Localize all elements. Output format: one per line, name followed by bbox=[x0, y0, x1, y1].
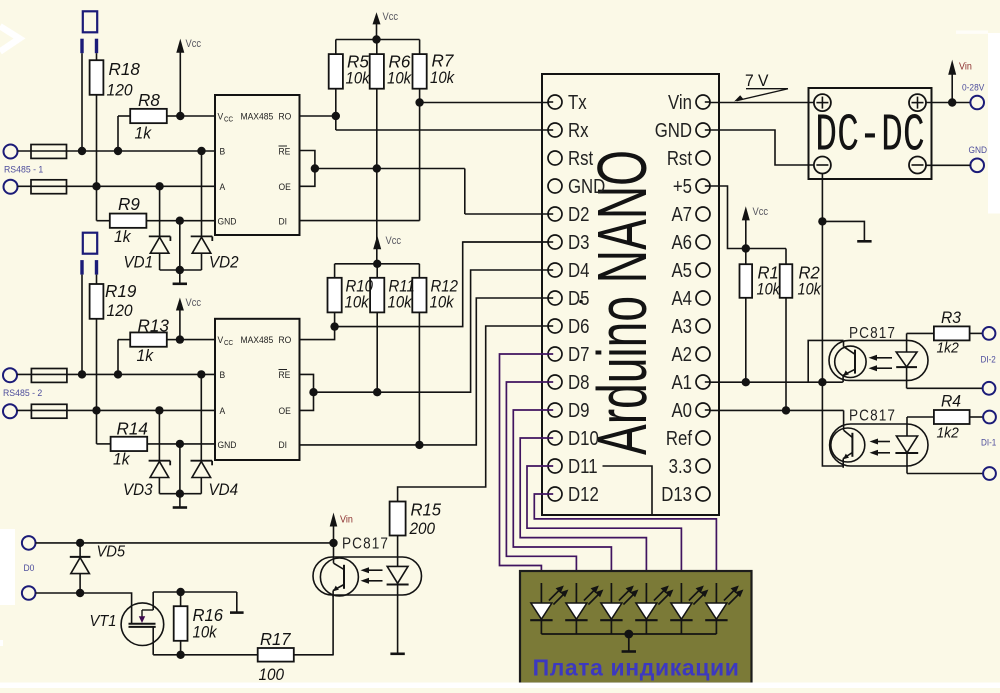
wire to Arduino D2 bbox=[465, 213, 548, 215]
LED HL5 on board bbox=[670, 583, 708, 634]
svg-text:GND: GND bbox=[218, 216, 237, 227]
svg-text:RS485 - 1: RS485 - 1 bbox=[4, 164, 43, 174]
svg-text:VD3: VD3 bbox=[123, 481, 153, 499]
node A2-line junctions bbox=[92, 406, 100, 414]
wire LED cathode to DI-2 return terminal bbox=[907, 387, 983, 389]
node bracket mid bbox=[311, 164, 319, 172]
optocoupler U4 PC817 #1 bbox=[829, 325, 928, 382]
diode VD3 bbox=[123, 410, 170, 499]
svg-text:D4: D4 bbox=[568, 259, 589, 282]
wire D0 plus line bbox=[36, 542, 334, 544]
svg-text:VD2: VD2 bbox=[209, 254, 239, 272]
wire Vcc to MAX485-1 Vcc pin bbox=[180, 115, 215, 117]
svg-text:Vcc: Vcc bbox=[383, 11, 399, 23]
svg-text:Ref: Ref bbox=[666, 427, 693, 450]
svg-text:10k: 10k bbox=[346, 70, 371, 88]
fuse F2 bbox=[31, 180, 67, 194]
resistor R11 bbox=[370, 264, 384, 392]
wire GND net vertical from DC-DC bbox=[821, 174, 823, 383]
wire LED cathode to DI-1 return terminal bbox=[907, 473, 983, 475]
wire D11 to LED5 bbox=[527, 466, 681, 585]
svg-text:A: A bbox=[220, 182, 226, 193]
LED HL4 on board bbox=[635, 583, 673, 634]
svg-text:A1: A1 bbox=[671, 371, 692, 394]
ground symbol 1 bbox=[173, 282, 187, 285]
pin A3 (Arduino right) bbox=[671, 315, 710, 338]
wire D3 pin stub bbox=[463, 241, 548, 243]
svg-text:Плата индикации: Плата индикации bbox=[533, 655, 740, 681]
optocoupler U5 PC817 #2 bbox=[830, 408, 928, 468]
svg-text:120: 120 bbox=[107, 81, 133, 100]
svg-text:VD1: VD1 bbox=[124, 254, 154, 272]
wire GND2 row to diode bus bbox=[179, 444, 181, 494]
svg-text:V: V bbox=[218, 111, 224, 122]
wire Tx line to Arduino bbox=[420, 102, 548, 104]
svg-text:Rx: Rx bbox=[568, 119, 589, 142]
node R11 pull-up junction bbox=[373, 388, 381, 396]
svg-text:100: 100 bbox=[259, 665, 285, 684]
terminal D0 minus bbox=[22, 586, 36, 600]
wire R19 bottom through A2 line to R14 bbox=[96, 319, 98, 444]
pin GND (Arduino left) bbox=[548, 175, 605, 198]
fuse F4 bbox=[31, 404, 67, 418]
wire RO2 to D3 riser bbox=[335, 242, 548, 327]
resistor R2 bbox=[780, 249, 822, 411]
ground symbol 2 bbox=[173, 506, 187, 509]
pin D5 (Arduino left) bbox=[548, 287, 589, 310]
pin D9 (Arduino left) bbox=[548, 399, 589, 422]
svg-text:Rst: Rst bbox=[667, 147, 692, 170]
svg-text:120: 120 bbox=[107, 301, 133, 320]
ground symbol 3 bbox=[857, 240, 871, 243]
fuse F1 bbox=[31, 145, 67, 159]
resistor R1 bbox=[740, 249, 782, 383]
node Vin junction bbox=[948, 98, 956, 106]
power Vcc arrow (R1 R2) bbox=[742, 206, 768, 248]
svg-text:Vcc: Vcc bbox=[753, 206, 769, 218]
pin 3.3 (Arduino right) bbox=[669, 455, 710, 478]
svg-text:D6: D6 bbox=[568, 315, 589, 338]
svg-text:R14: R14 bbox=[117, 418, 149, 439]
terminal 0-28V bbox=[970, 96, 984, 110]
svg-text:GND: GND bbox=[568, 175, 605, 198]
node Vcc bus R1 junction bbox=[742, 244, 750, 252]
terminal DI-1 out bbox=[983, 411, 996, 424]
resistor R6 with long vertical line bbox=[370, 40, 412, 264]
white scan artifact right strip bbox=[988, 33, 1000, 214]
pin Vin (Arduino right) bbox=[668, 91, 710, 114]
LED of U5 bbox=[895, 417, 918, 474]
resistor R15 bbox=[390, 500, 442, 538]
svg-text:B: B bbox=[220, 370, 226, 381]
LED HL1 on board bbox=[530, 583, 568, 634]
svg-text:3.3: 3.3 bbox=[669, 455, 692, 478]
label 7 V with leader arrow bbox=[734, 72, 788, 102]
svg-text:Vcc: Vcc bbox=[186, 38, 202, 50]
svg-text:10k: 10k bbox=[387, 70, 412, 88]
wire collector to opto3 bbox=[333, 543, 335, 557]
svg-text:R8: R8 bbox=[138, 90, 160, 111]
wire jumper left leg to B2 line bbox=[81, 275, 83, 375]
node A1 GND junction bbox=[818, 378, 826, 386]
wire D7 to LED1 bbox=[500, 354, 554, 585]
op-amp U2 MAX485 #2 bbox=[215, 319, 300, 460]
svg-text:MAX485: MAX485 bbox=[241, 111, 274, 122]
LED HL3 on board bbox=[600, 583, 638, 634]
svg-text:1k: 1k bbox=[137, 346, 154, 365]
svg-text:Tx: Tx bbox=[568, 91, 587, 114]
white scan artifact bottom strip bbox=[0, 683, 1000, 689]
node B2-line junctions bbox=[78, 370, 86, 378]
svg-text:D0: D0 bbox=[24, 563, 35, 574]
wire DC-DC plus output to 0-28V terminal bbox=[926, 102, 970, 104]
diode VD1 bbox=[124, 186, 171, 271]
pin Ref (Arduino right) bbox=[666, 427, 710, 450]
terminal DI-2 bbox=[983, 327, 996, 340]
node VD5 bottom bbox=[76, 589, 84, 597]
resistor R17 bbox=[258, 630, 334, 685]
wire GND row to diode bus bbox=[179, 221, 181, 270]
svg-text:V: V bbox=[218, 335, 224, 346]
wire DI1 row bbox=[300, 220, 420, 222]
svg-text:GND: GND bbox=[969, 145, 988, 156]
fuse F3 bbox=[31, 369, 67, 383]
node A0/R2 junction bbox=[782, 406, 790, 414]
svg-text:DI: DI bbox=[279, 216, 288, 227]
terminal RS485-1 pin B bbox=[4, 145, 18, 159]
wire RE2/OE2 tie to D4 riser bbox=[314, 270, 548, 392]
pin D12 (Arduino left) bbox=[548, 483, 599, 506]
node bracket2 mid bbox=[309, 388, 317, 396]
svg-text:R19: R19 bbox=[105, 281, 137, 302]
svg-text:D8: D8 bbox=[568, 371, 589, 394]
LED of U6 bbox=[387, 536, 409, 654]
pin D13 (Arduino right) bbox=[661, 483, 710, 506]
svg-text:DC-DC: DC-DC bbox=[815, 105, 925, 166]
svg-text:10k: 10k bbox=[430, 69, 455, 87]
svg-text:Vin: Vin bbox=[340, 514, 353, 526]
wire D12 to LED6 bbox=[534, 494, 716, 585]
jumper connector J2 (RS485-2 termination) bbox=[82, 233, 97, 275]
svg-text:RO: RO bbox=[279, 111, 292, 122]
svg-text:D2: D2 bbox=[568, 203, 589, 226]
terminal RS485-2 pin B bbox=[3, 368, 17, 382]
resistor R16 bbox=[174, 592, 224, 655]
svg-text:10k: 10k bbox=[430, 294, 455, 312]
wire D2 riser bbox=[464, 169, 466, 215]
wire RE1-OE1 bracket bbox=[300, 151, 315, 187]
svg-text:10k: 10k bbox=[345, 294, 370, 312]
op-amp U1 MAX485 #1 bbox=[215, 95, 300, 235]
wire D6 to R15 bbox=[398, 326, 548, 502]
svg-text:A: A bbox=[220, 406, 226, 417]
resistor R3 bbox=[907, 309, 983, 357]
svg-text:R6: R6 bbox=[389, 51, 411, 72]
node RO2/R10 junction bbox=[330, 322, 338, 330]
wire B2 line bbox=[17, 373, 215, 375]
node VD5 top bbox=[76, 539, 84, 547]
svg-text:R13: R13 bbox=[138, 315, 170, 336]
svg-text:D3: D3 bbox=[568, 231, 589, 254]
pin A2 (Arduino right) bbox=[671, 343, 710, 366]
pin +5 (Arduino right) bbox=[673, 175, 710, 198]
transistor VT1 MOSFET bbox=[90, 592, 164, 655]
terminal GND bbox=[970, 159, 984, 173]
svg-text:R3: R3 bbox=[941, 309, 961, 327]
power Vcc arrow (MAX485-2) bbox=[176, 297, 201, 339]
svg-text:GND: GND bbox=[218, 439, 237, 450]
wire D9 to LED3 bbox=[513, 410, 611, 585]
wire RE/OE tie to D2 riser bbox=[315, 168, 465, 170]
svg-text:1k: 1k bbox=[113, 450, 130, 469]
IC A1 Arduino NANO body bbox=[542, 74, 719, 515]
svg-text:Vcc: Vcc bbox=[186, 297, 202, 309]
stray dot near Arduino label bbox=[579, 300, 583, 304]
svg-text:R2: R2 bbox=[799, 263, 821, 282]
svg-text:10k: 10k bbox=[193, 624, 218, 642]
pin Rst (Arduino right) bbox=[667, 147, 710, 170]
node B-line junctions bbox=[78, 147, 86, 155]
wire Vcc to MAX485-2 Vcc pin bbox=[180, 339, 215, 341]
wire Rx line to Arduino bbox=[336, 129, 548, 131]
svg-text:R18: R18 bbox=[109, 59, 141, 80]
wire stubs entering right pin circles bbox=[705, 101, 711, 103]
resistor R4 bbox=[907, 392, 983, 442]
wire VT1 source rail bbox=[153, 654, 258, 656]
svg-text:10k: 10k bbox=[388, 294, 413, 312]
pin A4 (Arduino right) bbox=[671, 287, 710, 310]
power Vin arrow (opto3) bbox=[330, 513, 353, 544]
resistor R19 bbox=[90, 275, 137, 321]
wire DC-DC minus to GND terminal bbox=[926, 164, 970, 166]
svg-text:D12: D12 bbox=[568, 483, 599, 506]
power Vcc arrow (MAX485-1) bbox=[176, 38, 201, 116]
node board bus junction bbox=[624, 630, 633, 639]
diode VD5 bbox=[70, 543, 126, 593]
svg-text:R1: R1 bbox=[758, 263, 779, 282]
wire Vcc bus 1 bbox=[336, 39, 420, 41]
optocoupler U6 PC817 #3 bbox=[313, 536, 422, 597]
resistor R8 bbox=[118, 90, 180, 151]
terminal DI-2 return bbox=[983, 382, 996, 395]
resistor R10 bbox=[328, 264, 342, 327]
pin A6 (Arduino right) bbox=[671, 231, 710, 254]
wire Vcc bus 2 bbox=[335, 263, 420, 265]
svg-text:D7: D7 bbox=[568, 343, 589, 366]
svg-text:D10: D10 bbox=[568, 427, 599, 450]
svg-text:Vcc: Vcc bbox=[386, 235, 402, 247]
pin D8 (Arduino left) bbox=[548, 371, 589, 394]
pin D6 (Arduino left) bbox=[548, 315, 589, 338]
svg-text:A6: A6 bbox=[671, 231, 692, 254]
wire diode ground bus 2 bbox=[159, 493, 201, 495]
terminal D0 plus bbox=[22, 536, 36, 550]
svg-text:1k: 1k bbox=[135, 124, 152, 143]
svg-text:A3: A3 bbox=[671, 315, 692, 338]
ground symbol 5 bbox=[390, 652, 404, 655]
wire A2 line bbox=[17, 409, 215, 411]
svg-text:1k: 1k bbox=[114, 227, 131, 246]
wire A1 collector loop bbox=[808, 340, 843, 382]
pin A0 (Arduino right) bbox=[671, 399, 710, 422]
wire D8 to LED2 bbox=[506, 382, 576, 585]
svg-text:PC817: PC817 bbox=[342, 536, 389, 553]
power Vcc arrow (bus 1) bbox=[373, 11, 399, 39]
wire +5 to Vcc bus bbox=[711, 186, 787, 249]
node R16 bottom bbox=[176, 651, 184, 659]
jumper connector J1 (RS485-1 termination) bbox=[82, 11, 97, 53]
svg-text:A5: A5 bbox=[671, 259, 692, 282]
svg-text:D9: D9 bbox=[568, 399, 589, 422]
svg-text:10k: 10k bbox=[798, 281, 823, 299]
terminal RS485-1 pin A bbox=[4, 180, 18, 194]
node Tx/R7 junction bbox=[415, 98, 423, 106]
svg-text:VT1: VT1 bbox=[90, 612, 117, 630]
wire A0 row bbox=[711, 409, 844, 411]
terminal DI-1 return bbox=[983, 467, 996, 480]
node opto3 collector Vin junction bbox=[329, 539, 337, 547]
node bus2 junction bbox=[176, 490, 184, 498]
svg-text:A7: A7 bbox=[671, 203, 692, 226]
wire Arduino GND to DC-DC minus bbox=[711, 130, 815, 165]
node bus Vcc junction bbox=[372, 35, 380, 43]
svg-text:Rst: Rst bbox=[568, 147, 593, 170]
svg-text:D11: D11 bbox=[568, 455, 598, 478]
svg-text:Vin: Vin bbox=[668, 91, 692, 114]
node GND row junction bbox=[176, 217, 184, 225]
ground symbol board bbox=[622, 650, 636, 653]
node VD2 on B line bbox=[197, 147, 205, 155]
pin A1 (Arduino right) bbox=[671, 371, 710, 394]
svg-text:R5: R5 bbox=[347, 51, 369, 72]
svg-text:R17: R17 bbox=[260, 630, 291, 649]
wire ground stub bbox=[822, 221, 864, 241]
white scan artifact left notch bbox=[0, 640, 3, 646]
svg-text:D13: D13 bbox=[661, 483, 692, 506]
svg-text:PC817: PC817 bbox=[849, 408, 896, 425]
pin D3 (Arduino left) bbox=[548, 231, 589, 254]
svg-text:DI-2: DI-2 bbox=[981, 354, 997, 365]
wire RO2 to R10 line bbox=[300, 327, 335, 340]
white scan artifact smear bbox=[956, 31, 988, 34]
svg-text:RS485 - 2: RS485 - 2 bbox=[3, 388, 42, 398]
pin D10 (Arduino left) bbox=[548, 427, 599, 450]
svg-text:A4: A4 bbox=[671, 287, 692, 310]
resistor R14 bbox=[97, 418, 216, 469]
wire D11 internal stub bbox=[603, 466, 653, 514]
pin Tx (Arduino left) bbox=[548, 91, 587, 114]
pin D4 (Arduino left) bbox=[548, 259, 589, 282]
power Vin arrow (0-28V input) bbox=[948, 60, 972, 103]
wire Vin 7V line bbox=[711, 102, 815, 104]
module indication board bbox=[520, 571, 752, 684]
wire VT1 drain rail bbox=[153, 591, 237, 593]
module U3 DC-DC converter bbox=[809, 88, 932, 179]
svg-text:DI-1: DI-1 bbox=[981, 437, 997, 448]
node Vcc/R8 junction bbox=[176, 112, 184, 120]
node bus2 Vcc junction bbox=[373, 260, 381, 268]
node A-line junctions bbox=[92, 182, 100, 190]
svg-text:B: B bbox=[220, 146, 226, 157]
svg-text:Vin: Vin bbox=[959, 61, 972, 73]
svg-text:10k: 10k bbox=[757, 281, 782, 299]
resistor R5 with pull-up line bbox=[329, 40, 371, 131]
svg-text:1k2: 1k2 bbox=[937, 340, 959, 357]
svg-text:OE: OE bbox=[279, 406, 291, 417]
resistor R7 with pull-up line bbox=[413, 40, 456, 221]
wire board bus to ground bbox=[628, 634, 630, 651]
svg-text:VD5: VD5 bbox=[97, 543, 126, 561]
wire B line bbox=[18, 150, 216, 152]
svg-text:RO: RO bbox=[279, 335, 292, 346]
svg-text:R15: R15 bbox=[411, 500, 442, 519]
node GND2 row junction bbox=[176, 440, 184, 448]
wire RE2-OE2 bracket bbox=[300, 374, 314, 410]
wire to ground 1 bbox=[179, 270, 181, 284]
svg-text:200: 200 bbox=[409, 519, 435, 538]
svg-text:DI: DI bbox=[279, 439, 288, 450]
node R6 pull-up junction bbox=[373, 164, 381, 172]
wire R18 bottom through A line to R9 bbox=[96, 95, 98, 221]
svg-text:R9: R9 bbox=[118, 194, 140, 215]
wire drain stub to ground bbox=[236, 592, 238, 613]
svg-text:A2: A2 bbox=[671, 343, 692, 366]
pin D11 (Arduino left) bbox=[548, 455, 598, 478]
wire opto3 emitter to R17 bbox=[332, 595, 334, 655]
wire stubs entering left pin circles bbox=[548, 101, 553, 103]
resistor R9 bbox=[97, 194, 216, 247]
LED HL6 on board bbox=[705, 583, 743, 634]
wire A line bbox=[18, 185, 216, 187]
svg-text:R7: R7 bbox=[432, 50, 455, 71]
resistor R12 bbox=[345, 264, 459, 445]
svg-text:GND: GND bbox=[655, 119, 692, 142]
wire A0 to opto2 collector bbox=[843, 410, 845, 424]
wire jumper left leg to B line bbox=[81, 53, 83, 151]
wire D10 to LED4 bbox=[520, 438, 646, 585]
resistor R18 bbox=[90, 53, 140, 99]
svg-text:CC: CC bbox=[224, 116, 233, 123]
wire RO1 to R5 line bbox=[300, 115, 336, 117]
svg-text:PC817: PC817 bbox=[849, 325, 896, 342]
resistor R13 bbox=[118, 315, 180, 374]
pin D7 (Arduino left) bbox=[548, 343, 589, 366]
pin Rx (Arduino left) bbox=[548, 119, 589, 142]
svg-text:OE: OE bbox=[279, 182, 291, 193]
node A1/R1 junction bbox=[742, 378, 750, 386]
wire diode ground bus 1 bbox=[160, 269, 202, 271]
svg-text:MAX485: MAX485 bbox=[241, 335, 274, 346]
node R16 top bbox=[176, 588, 184, 596]
svg-text:R4: R4 bbox=[941, 392, 961, 410]
svg-text:RE: RE bbox=[279, 370, 291, 381]
LED HL2 on board bbox=[565, 583, 603, 634]
wire D0 minus line to VT1 gate bbox=[36, 593, 132, 624]
svg-text:D5: D5 bbox=[568, 287, 589, 310]
svg-text:R16: R16 bbox=[193, 606, 224, 625]
white scan artifact chevron top-left bbox=[0, 26, 20, 51]
node RO/R5 junction bbox=[332, 112, 340, 120]
svg-text:7 V: 7 V bbox=[745, 72, 769, 90]
svg-text:RE: RE bbox=[279, 146, 291, 157]
node DI2/R12 junction bbox=[415, 441, 423, 449]
node bus junction bbox=[176, 266, 184, 274]
wire GND net to opto2 emitter bbox=[822, 382, 843, 466]
svg-text:A0: A0 bbox=[671, 399, 692, 422]
terminal RS485-2 pin A bbox=[3, 404, 17, 418]
wire DI2 row to D5 riser bbox=[300, 298, 548, 445]
node Vcc2/R13 junction bbox=[176, 335, 184, 343]
